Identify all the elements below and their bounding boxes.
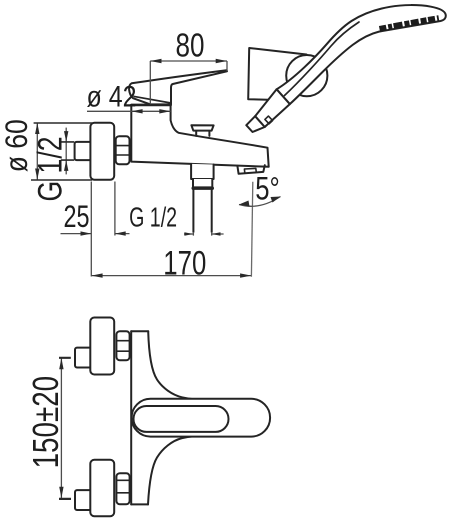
svg-text:ø 60: ø 60 (0, 119, 34, 172)
svg-text:170: 170 (163, 244, 206, 282)
svg-text:5°: 5° (255, 171, 279, 207)
svg-text:150±20: 150±20 (25, 376, 66, 469)
svg-text:G 1/2: G 1/2 (129, 202, 177, 233)
svg-text:ø 42: ø 42 (87, 81, 137, 114)
svg-text:80: 80 (176, 27, 205, 64)
svg-text:25: 25 (64, 198, 90, 234)
svg-text:G 1/2: G 1/2 (32, 137, 70, 202)
